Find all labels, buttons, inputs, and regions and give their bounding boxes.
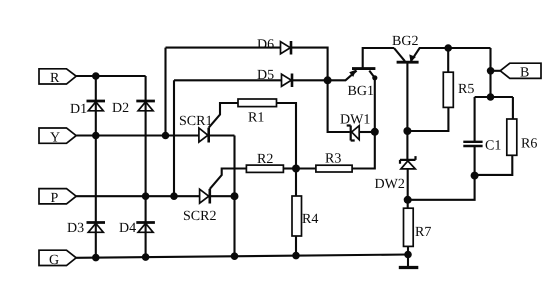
transistor BG1 bbox=[328, 48, 394, 99]
svg-text:R1: R1 bbox=[248, 111, 264, 126]
diode D4 bbox=[119, 221, 155, 236]
wire D5 line bbox=[174, 79, 328, 81]
svg-text:BG1: BG1 bbox=[348, 84, 374, 99]
node G-SCR junction bbox=[231, 252, 239, 260]
node BG2-R5 junction bbox=[403, 127, 411, 135]
svg-text:R2: R2 bbox=[257, 152, 273, 167]
resistor R7 bbox=[404, 208, 432, 246]
svg-text:G: G bbox=[49, 253, 59, 268]
svg-text:R5: R5 bbox=[458, 82, 474, 97]
wire SCR2 gate bbox=[210, 169, 247, 189]
wire G bottom rail bbox=[76, 255, 408, 258]
wire R3 right riser bbox=[352, 78, 375, 169]
terminal P bbox=[39, 189, 76, 206]
diode D6 bbox=[257, 38, 291, 55]
svg-text:BG2: BG2 bbox=[392, 34, 418, 49]
wire output branch bbox=[489, 48, 491, 97]
node R1-R2-R3-R4 junction bbox=[292, 165, 300, 173]
wire bottom link to C1R6 bbox=[408, 176, 475, 200]
node P-D4 junction bbox=[142, 192, 150, 200]
wire SCR1 cathode run bbox=[209, 134, 235, 136]
svg-text:D5: D5 bbox=[257, 68, 274, 83]
wire SCR1 gate bbox=[209, 103, 238, 128]
svg-text:R: R bbox=[50, 71, 60, 86]
wire C1R6 top bbox=[475, 96, 513, 98]
terminal R bbox=[39, 69, 76, 86]
node G-D3 junction bbox=[92, 254, 100, 262]
wire B lead bbox=[491, 70, 501, 72]
svg-text:D2: D2 bbox=[112, 101, 129, 116]
wire R6 top lead bbox=[512, 97, 514, 119]
node D5-D6-BG1 junction bbox=[324, 76, 332, 84]
wire R4 leads bbox=[295, 169, 297, 256]
wire D5 riser bbox=[173, 80, 175, 196]
node DW1 anode junction bbox=[371, 128, 379, 136]
wire R2 right lead bbox=[283, 167, 296, 169]
terminal G bbox=[39, 250, 76, 268]
wire D6 riser bbox=[164, 48, 166, 136]
wire P rail bbox=[76, 195, 199, 197]
resistor R1 bbox=[238, 99, 277, 126]
svg-text:R7: R7 bbox=[415, 225, 431, 240]
resistor R6 bbox=[507, 119, 538, 155]
resistor R2 bbox=[246, 152, 283, 172]
svg-text:D3: D3 bbox=[67, 221, 84, 236]
diode D5 bbox=[257, 68, 292, 87]
resistor R3 bbox=[316, 152, 352, 173]
svg-text:P: P bbox=[51, 191, 59, 206]
svg-text:R6: R6 bbox=[521, 137, 537, 152]
wire R rail bbox=[76, 75, 145, 77]
diode D3 bbox=[67, 221, 105, 236]
svg-text:B: B bbox=[520, 66, 529, 81]
zener DW1 bbox=[340, 113, 370, 141]
wire D2 branch column bbox=[145, 76, 147, 257]
wire R5 top lead bbox=[447, 48, 449, 72]
ground bbox=[399, 255, 419, 268]
node C1R6 bottom junction bbox=[471, 172, 479, 180]
transistor BG2 bbox=[392, 34, 491, 160]
svg-text:R4: R4 bbox=[302, 212, 318, 227]
node BG1 collector-lead junction bbox=[372, 75, 377, 80]
thyristor SCR1 bbox=[179, 114, 212, 143]
wire D1-D3 column bbox=[95, 76, 97, 258]
node G-R4 junction bbox=[292, 252, 300, 260]
node G-D4 junction bbox=[142, 253, 150, 261]
node R5 top junction bbox=[444, 44, 452, 52]
node SCR2 cathode junction bbox=[231, 192, 239, 200]
wire R1 right drop bbox=[277, 103, 297, 165]
zener DW2 bbox=[375, 156, 416, 192]
wire SCR column bbox=[233, 136, 235, 257]
terminal B bbox=[500, 63, 541, 80]
svg-text:SCR1: SCR1 bbox=[179, 114, 212, 129]
svg-text:C1: C1 bbox=[485, 139, 501, 154]
node B junction bbox=[487, 67, 495, 75]
wire R6 bottom lead bbox=[475, 155, 513, 175]
resistor R5 bbox=[443, 72, 474, 107]
diode D1 bbox=[70, 101, 105, 117]
node C1R6 top junction bbox=[487, 93, 495, 101]
node Y-D6 junction bbox=[162, 132, 170, 140]
wire DW1 anode lead bbox=[359, 131, 375, 133]
wire D6 top line bbox=[166, 48, 328, 81]
wire DW2 anode lead bbox=[407, 169, 409, 208]
svg-text:DW1: DW1 bbox=[340, 113, 370, 128]
resistor R4 bbox=[292, 196, 318, 236]
wire DW1 cathode branch bbox=[328, 80, 350, 132]
thyristor SCR2 bbox=[183, 189, 216, 224]
capacitor C1 bbox=[463, 97, 501, 176]
wire R3 left lead bbox=[296, 167, 316, 169]
wire R5 bottom lead bbox=[407, 107, 448, 131]
svg-text:D1: D1 bbox=[70, 102, 87, 117]
node P-D5 junction bbox=[170, 192, 178, 200]
svg-text:D6: D6 bbox=[257, 38, 274, 53]
diode D2 bbox=[112, 101, 155, 116]
node DW2-R7-C1 junction bbox=[404, 196, 412, 204]
terminal Y bbox=[39, 128, 76, 146]
wire R7 bottom lead bbox=[407, 246, 409, 254]
svg-text:R3: R3 bbox=[325, 152, 341, 167]
node R7-ground junction bbox=[404, 251, 412, 259]
node Y-D1 junction bbox=[92, 132, 100, 140]
node R-D1 junction bbox=[92, 72, 100, 80]
svg-text:SCR2: SCR2 bbox=[183, 209, 216, 224]
svg-text:Y: Y bbox=[50, 131, 60, 146]
wire Y rail bbox=[76, 134, 199, 136]
svg-text:D4: D4 bbox=[119, 221, 136, 236]
wire SCR2 cathode run bbox=[210, 195, 235, 197]
svg-text:DW2: DW2 bbox=[375, 177, 405, 192]
